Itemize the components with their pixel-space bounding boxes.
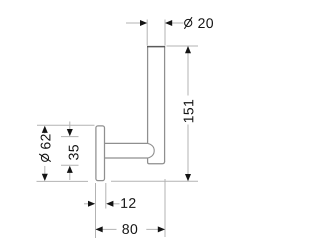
wire: phi62 top extension line — [37, 124, 95, 126]
wire: 80 dimension line right segment — [146, 228, 165, 230]
node: phi20 left arrow — [140, 20, 147, 26]
node: phi20 right arrow — [165, 20, 172, 26]
wire: 151 bottom extension line — [111, 180, 198, 182]
wire: 80 dimension line left segment — [96, 228, 117, 230]
wire: phi62 dimension line lower — [44, 166, 46, 175]
wire: 151 top extension line — [167, 45, 199, 47]
wire: 151 dimension line lower — [187, 125, 189, 176]
node: 35 value label (rotated, reads bottom to top) — [69, 145, 79, 160]
node: phi20 value label — [198, 18, 213, 28]
wire: 35 top extension line — [61, 136, 79, 138]
rod top edge (darker) — [147, 46, 165, 48]
node: 80 right arrow (pointing right) — [158, 226, 165, 232]
wire: phi20 dimension tail right — [172, 22, 184, 24]
node: phi62 diameter symbol (rotated) — [39, 154, 51, 162]
node: phi62 bottom arrow — [42, 174, 48, 181]
wire: phi62 dimension line upper — [44, 132, 46, 134]
wire: 12 dimension right tail — [113, 203, 120, 205]
node: phi62 top arrow — [42, 126, 48, 133]
wire: phi62 bottom extension line — [37, 180, 89, 182]
wire: 12/80 shared left vertical extension line (plate wall face) — [95, 183, 97, 238]
wall plate (rosette, side profile) — [96, 126, 105, 181]
wire: phi20 right vertical extension line — [164, 20, 166, 46]
wire: 12 right vertical extension line (plate front face) — [105, 183, 107, 209]
arm bottom edge — [105, 157, 148, 159]
node: 80 value label — [122, 224, 137, 234]
rod left edge — [147, 47, 149, 144]
wire: phi20 dimension tail left — [126, 22, 141, 24]
node: phi20 diameter symbol — [184, 17, 192, 29]
arm end dome (inside rod outline) — [148, 143, 155, 158]
wire: 35 bottom extension line — [61, 164, 79, 166]
node: 12 value label — [121, 198, 135, 208]
node: 151 top arrow — [185, 46, 191, 53]
wire: 151 dimension line upper — [187, 52, 189, 96]
wire: 12 dimension left tail — [84, 203, 89, 205]
node: 12 left arrow (pointing right) — [88, 201, 95, 207]
node: 12 right arrow (pointing left) — [106, 201, 113, 207]
rod right edge — [164, 47, 166, 162]
node: 35 lower arrow (pointing up) — [67, 166, 73, 173]
wire: 35 upper dimension tail — [69, 122, 71, 131]
wire: phi20 left vertical extension line — [146, 20, 148, 46]
wire: 35 lower dimension tail — [69, 172, 71, 180]
rod bottom rim — [148, 158, 165, 164]
node: phi62 value label (rotated, reads bottom to top) — [41, 134, 51, 149]
wire: 80 right vertical extension line (rod outer face) — [164, 179, 166, 237]
node: 80 left arrow (pointing left) — [96, 226, 103, 232]
arm top edge — [105, 142, 148, 144]
node: 151 value label (rotated, reads bottom to top) — [184, 100, 194, 122]
node: 151 bottom arrow — [185, 174, 191, 181]
node: 35 upper arrow (pointing down) — [67, 129, 73, 136]
